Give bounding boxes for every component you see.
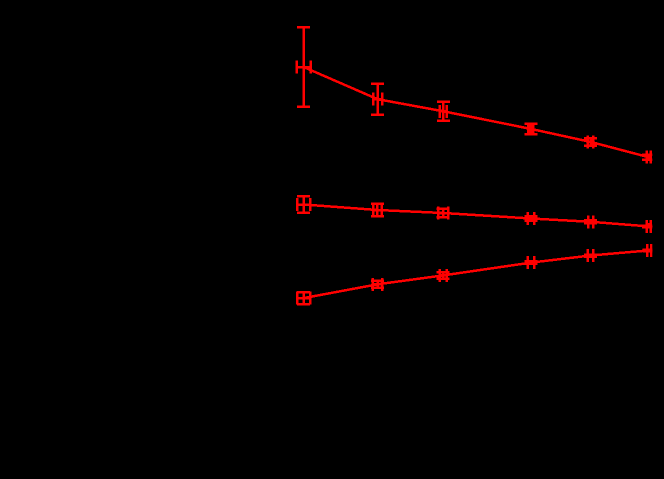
series 2 point 6 upper stub	[648, 223, 651, 226]
series 2 (middle) point 5 x/y error bars at (590.6,221.8)	[584, 215, 597, 228]
series 3 (bottom, increasing) connecting line	[304, 250, 649, 298]
series 2 (middle) point 4 x/y error bars at (531.1,218.5)	[525, 212, 538, 225]
series 1 (top, decreasing) connecting line	[304, 67, 649, 157]
series 2 (middle) point 3 x/y error bars at (443.2,213)	[437, 207, 450, 220]
series 3 (bottom, increasing) point 3 x/y error bars at (443.2,275.4)	[437, 269, 450, 282]
series 1 (top, decreasing) point 2 x/y error bars at (377.6,99.2)	[371, 84, 384, 115]
series 3 (bottom, increasing) point 1 x/y error bars at (303.6,298.1)	[297, 292, 310, 305]
series 2 (middle) connecting line	[304, 205, 649, 227]
series 2 (middle) point 6 x/y error bars at (648.7,226.4)	[642, 220, 655, 233]
series 2 (middle) point 1 x/y error bars at (303.7,204.5)	[297, 196, 310, 213]
series 1 (top, decreasing) point 6 x/y error bars at (648.7,157.2)	[642, 151, 655, 164]
series 3 (bottom, increasing) point 4 x/y error bars at (531,262.6)	[525, 256, 538, 269]
series 1 (top, decreasing) point 3 x/y error bars at (443.4,111.3)	[437, 102, 450, 121]
series 3 (bottom, increasing) point 2 x/y error bars at (377.5,284.3)	[371, 278, 384, 291]
series 1 (top, decreasing) point 4 x/y error bars at (530.8,128.9)	[524, 122, 537, 135]
series 1 (top, decreasing) point 5 x/y error bars at (590.5,141.9)	[584, 135, 597, 148]
series 1 (top, decreasing) point 1 x/y error bars at (303.6,67)	[297, 27, 311, 107]
series 2 (middle) point 2 x/y error bars at (377.4,210)	[371, 204, 384, 217]
series 3 (bottom, increasing) point 5 x/y error bars at (590.5,255.5)	[584, 249, 597, 262]
series 3 (bottom, increasing) point 6 x/y error bars at (649.1,250.4)	[643, 244, 656, 257]
